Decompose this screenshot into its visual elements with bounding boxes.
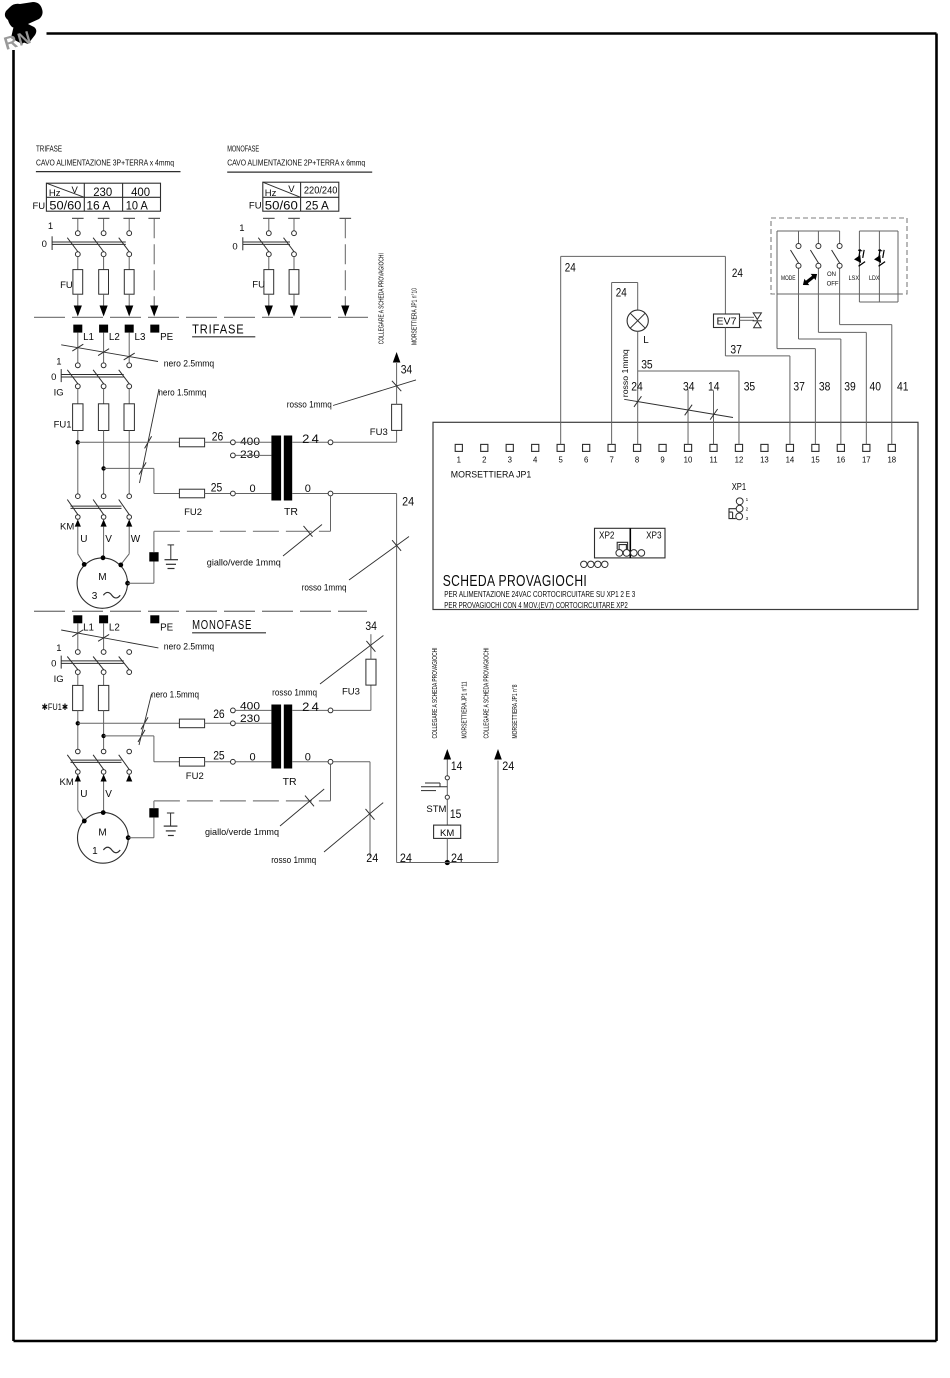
terminal JP1 pin 14 (786, 444, 793, 451)
fuses FU supply trifase (73, 270, 83, 295)
underline TRIFASE heading (192, 336, 255, 338)
wire 0 secondary trifase (292, 493, 328, 495)
fuses FU1 trifase (73, 404, 83, 431)
wire motor to PE trifase (128, 582, 154, 584)
svg-text:1: 1 (746, 497, 749, 502)
svg-text:L1: L1 (83, 332, 94, 343)
svg-text:M: M (98, 827, 106, 838)
wire PE square up monofase (153, 801, 155, 808)
svg-text:STM: STM (426, 804, 446, 815)
callout nero 1.5mmq monofase (139, 694, 152, 745)
terminal circle 400 monofase (231, 708, 236, 713)
wire lamp branch from pin7 (611, 283, 613, 445)
arrows KM poles trifase (75, 519, 81, 526)
svg-text:✱FU1✱: ✱FU1✱ (42, 702, 69, 712)
XP3 pin circles (631, 550, 638, 557)
wire 26 monofase (78, 722, 180, 724)
svg-text:14: 14 (786, 456, 795, 465)
svg-text:FU: FU (252, 280, 265, 291)
callout nero 1.5mmq trifase (140, 389, 160, 483)
transformer TR trifase secondary bar (284, 436, 292, 501)
svg-text:MODE: MODE (781, 275, 796, 282)
svg-text:M: M (98, 572, 106, 583)
thermal switch STM symbol (446, 780, 448, 795)
svg-text:16 A: 16 A (86, 200, 110, 212)
wires L1 L2 to IG monofase (77, 623, 79, 649)
wire 35 horizontal to pin12 (638, 370, 739, 372)
LED box LSX LDX (859, 230, 898, 232)
svg-text:nero 1.5mmq: nero 1.5mmq (158, 388, 206, 398)
wire 0 secondary to right trifase (333, 493, 397, 495)
wire box-left to pin15 (776, 294, 778, 349)
wire giallo/verde dashed monofase (154, 800, 331, 802)
transformer TR trifase primary bar (271, 436, 281, 501)
callout rosso 1mmq trifase lower (349, 537, 409, 581)
terminal JP1 pin 4 (532, 444, 539, 451)
node PE trifase square (150, 325, 159, 333)
wire 0 circle down to PE dashed trifase (330, 496, 332, 531)
svg-text:0: 0 (305, 483, 311, 495)
wire 24 to FU3 monofase (333, 709, 371, 711)
node L2 trifase square (99, 325, 108, 333)
coil KM box (434, 825, 461, 838)
arrow 24 to scheda (494, 749, 502, 760)
terminal JP1 pin 3 (506, 444, 513, 451)
wire V to motor trifase (103, 527, 105, 558)
underline MONOFASE heading (192, 632, 266, 634)
svg-text:L2: L2 (109, 332, 120, 343)
circle 24 secondary monofase (328, 708, 333, 713)
wire U to motor monofase (77, 782, 79, 811)
fuse FU2 trifase (179, 489, 204, 498)
terminal circle 0 primary monofase (231, 759, 236, 764)
svg-text:0: 0 (232, 242, 237, 253)
wire KM coil to 24 node (446, 838, 448, 862)
lamp L (627, 310, 648, 331)
circle 0 secondary monofase (328, 759, 333, 764)
svg-text:13: 13 (760, 456, 769, 465)
ground symbol trifase (168, 544, 175, 546)
wire 24 right vertical to arrow (497, 761, 499, 863)
wire 26 fuse to circle monofase (205, 722, 231, 724)
wire L1 below FU1 monofase (77, 711, 79, 750)
svg-text:V: V (105, 534, 112, 545)
svg-text:nero 1.5mmq: nero 1.5mmq (151, 690, 199, 700)
connector XP1 pin1 (736, 498, 743, 505)
wire 230 to TR trifase (235, 454, 271, 456)
svg-text:1: 1 (92, 846, 98, 857)
svg-text:COLLEGARE A SCHEDA PROVAGIOCHI: COLLEGARE A SCHEDA PROVAGIOCHI (482, 647, 491, 738)
callout rosso 1mmq monofase lower (324, 803, 383, 852)
svg-text:FU2: FU2 (186, 771, 204, 782)
wire 26 trifase (78, 441, 180, 443)
node PE square monofase motor (149, 808, 158, 817)
wire 25 fuse to circle trifase (205, 493, 231, 495)
svg-text:11: 11 (709, 456, 717, 465)
contactor KM monofase (76, 749, 81, 754)
svg-text:Hz: Hz (265, 188, 277, 199)
svg-text:FU1: FU1 (54, 420, 72, 431)
jumper XP2 symbol (617, 542, 627, 549)
svg-text:220/240: 220/240 (304, 186, 338, 197)
pendant inner top bus (777, 230, 840, 232)
terminal JP1 pin 16 (837, 444, 844, 451)
wires switch to fuses trifase supply (77, 257, 79, 270)
svg-text:0: 0 (51, 659, 56, 670)
svg-text:35: 35 (744, 382, 756, 394)
svg-text:3: 3 (508, 456, 512, 465)
svg-text:FU: FU (33, 201, 46, 212)
spare jumper circles row (581, 561, 587, 567)
terminal circle 400 trifase (231, 440, 236, 445)
svg-text:V: V (72, 185, 79, 196)
terminal stub PE supply monofase (340, 217, 352, 219)
wire PE dashed supply monofase (344, 218, 346, 306)
svg-text:2: 2 (482, 456, 486, 465)
terminal JP1 pin 13 (761, 444, 768, 451)
wire 24 to FU3 trifase (333, 441, 397, 443)
svg-text:34: 34 (401, 365, 413, 377)
divider XP2 XP3 (629, 528, 631, 558)
svg-text:2: 2 (746, 507, 749, 512)
wire V to motor monofase (103, 782, 105, 813)
svg-text:giallo/verde 1mmq: giallo/verde 1mmq (205, 827, 279, 837)
svg-text:Hz: Hz (49, 188, 61, 199)
svg-text:15: 15 (811, 456, 820, 465)
LED LDX symbol (871, 247, 890, 266)
svg-text:16: 16 (837, 456, 846, 465)
svg-text:24: 24 (302, 702, 321, 714)
svg-text:3: 3 (746, 516, 749, 521)
terminal JP1 pin 11 (710, 444, 717, 451)
wire L2 below FU1 trifase (103, 431, 105, 495)
svg-text:4: 4 (533, 456, 538, 465)
svg-text:5: 5 (559, 456, 564, 465)
wire stub pin11 (713, 391, 715, 445)
transformer TR monofase primary bar (271, 705, 281, 769)
svg-text:ON: ON (827, 271, 836, 278)
wires fuses to bus arrows trifase (77, 294, 79, 306)
wires fuses to bus arrows monofase (268, 294, 270, 306)
border frame (47, 32, 937, 35)
svg-text:rosso 1mmq: rosso 1mmq (272, 687, 317, 697)
contact circle STM upper (445, 776, 449, 780)
svg-text:24: 24 (400, 853, 413, 865)
terminal JP1 pin 18 (888, 444, 895, 451)
svg-text:0: 0 (305, 751, 311, 763)
svg-text:24: 24 (732, 268, 744, 280)
wire FU3 up trifase (396, 363, 398, 404)
svg-text:rosso 1mmq: rosso 1mmq (302, 583, 347, 593)
junction dot L1 26-wire (76, 440, 80, 444)
wire motor to PE monofase (128, 837, 154, 839)
junction dot L2 25-wire (101, 466, 105, 470)
fuses FU supply monofase (264, 270, 274, 295)
svg-text:L3: L3 (135, 332, 146, 343)
wire 400 to TR trifase (235, 441, 271, 443)
svg-text:V: V (288, 184, 295, 195)
svg-text:FU3: FU3 (342, 687, 360, 698)
terminal stub L2 supply trifase (98, 217, 110, 219)
fuse FU3 monofase (366, 659, 376, 685)
wire ON/OFF to pin18 (839, 268, 841, 324)
motor M1 monofase (78, 812, 129, 863)
fuse on wire 26 trifase (179, 438, 204, 447)
wire giallo/verde dashed trifase (154, 530, 331, 532)
svg-text:24: 24 (402, 497, 415, 509)
wire 0 to TR monofase (235, 761, 271, 763)
svg-text:1: 1 (56, 356, 61, 367)
logo (2, 2, 43, 54)
terminal JP1 pin 8 (633, 444, 640, 451)
svg-text:10: 10 (684, 456, 693, 465)
wire 24 long vertical down (396, 494, 398, 863)
svg-text:10 A: 10 A (126, 200, 148, 212)
wire 26 fuse to circle (205, 441, 231, 443)
fuse FU3 trifase (392, 404, 402, 430)
svg-text:XP1: XP1 (732, 482, 747, 493)
node L1 monofase square (73, 615, 82, 623)
junction dot 24 node (445, 860, 450, 865)
svg-text:MONOFASE: MONOFASE (227, 145, 259, 154)
svg-text:KM: KM (440, 828, 454, 839)
tilde motor trifase (103, 592, 120, 598)
svg-text:TR: TR (283, 776, 297, 788)
table trifase ratings box (46, 183, 160, 211)
wire 24 secondary monofase (292, 709, 328, 711)
transformer TR monofase secondary bar (284, 705, 292, 769)
svg-text:3: 3 (92, 591, 98, 602)
callout rosso 1mmq monofase upper (320, 636, 383, 685)
svg-text:PER ALIMENTAZIONE 24VAC CORTOC: PER ALIMENTAZIONE 24VAC CORTOCIRCUITARE … (444, 590, 635, 599)
svg-text:XP2: XP2 (599, 531, 615, 542)
wire 400 stub to TR monofase (235, 709, 271, 711)
terminal stub L2 supply monofase (288, 217, 300, 219)
switch MODE (798, 231, 800, 244)
svg-text:giallo/verde 1mmq: giallo/verde 1mmq (207, 557, 281, 567)
pendant inner bottom bus (777, 293, 902, 295)
arrow 34 to scheda trifase (393, 352, 401, 363)
node PE monofase square (150, 615, 159, 623)
svg-text:FU3: FU3 (370, 427, 388, 438)
terminal JP1 pin 12 (735, 444, 742, 451)
svg-text:15: 15 (450, 809, 462, 821)
svg-text:W: W (131, 534, 141, 545)
svg-text:38: 38 (819, 382, 831, 394)
table monofase ratings box (263, 182, 339, 211)
wire PE dashed supply trifase (153, 218, 155, 306)
terminal stub L1 supply monofase (263, 217, 275, 219)
wire 25 monofase (104, 735, 154, 737)
svg-text:8: 8 (635, 456, 639, 465)
connector XP1 jumper bracket (729, 509, 736, 519)
wire 24 bottom horizontal (397, 862, 498, 864)
svg-text:37: 37 (793, 382, 805, 394)
box scheda provagiochi (433, 422, 918, 609)
solenoid valve EV7 box (714, 314, 740, 328)
connector XP2 XP3 box (595, 528, 666, 558)
LED LSX symbol (851, 247, 870, 266)
svg-text:12: 12 (735, 456, 744, 465)
terminal JP1 pin 2 (481, 444, 488, 451)
svg-text:37: 37 (730, 344, 742, 356)
fuse on wire 26 monofase (179, 719, 204, 728)
svg-text:FU2: FU2 (184, 507, 202, 518)
svg-text:25: 25 (211, 483, 223, 495)
circle 24 secondary trifase (328, 440, 333, 445)
node PE square trifase motor (149, 552, 158, 561)
wire 0 to TR trifase (235, 493, 271, 495)
wire L1 below FU1 trifase (77, 431, 79, 495)
svg-text:18: 18 (887, 456, 896, 465)
svg-text:9: 9 (660, 456, 664, 465)
arrows KM poles monofase (75, 774, 81, 781)
main switch supply trifase (75, 231, 80, 236)
wires L1 L2 L3 to IG trifase (77, 333, 79, 363)
fuse FU2 monofase (179, 758, 204, 767)
svg-text:24: 24 (616, 288, 628, 300)
ground symbol monofase (167, 812, 174, 814)
wire 230 to TR monofase (235, 722, 271, 724)
svg-text:39: 39 (844, 382, 856, 394)
svg-text:25 A: 25 A (305, 200, 329, 212)
svg-text:IG: IG (54, 674, 64, 685)
terminal JP1 pin 1 (455, 444, 462, 451)
terminal JP1 pin 10 (684, 444, 691, 451)
svg-text:KM: KM (60, 777, 74, 788)
svg-text:PER PROVAGIOCHI CON 4 MOV.(EV7: PER PROVAGIOCHI CON 4 MOV.(EV7) CORTOCIR… (444, 601, 628, 610)
svg-text:1: 1 (457, 456, 461, 465)
terminal JP1 pin 17 (863, 444, 870, 451)
svg-text:1: 1 (239, 223, 244, 234)
svg-text:MORSETTIERA JP1 n°10: MORSETTIERA JP1 n°10 (410, 288, 419, 345)
wire 25 fuse to circle monofase (205, 761, 231, 763)
svg-text:34: 34 (365, 621, 377, 633)
svg-text:24: 24 (565, 263, 577, 275)
XP2 pin circles (616, 550, 623, 557)
svg-text:FU: FU (60, 280, 73, 291)
svg-text:MORSETTIERA JP1: MORSETTIERA JP1 (451, 470, 532, 481)
pendant inner left edge (776, 231, 778, 294)
junction dot L1 26-wire monofase (76, 721, 80, 725)
terminal JP1 pin 7 (608, 444, 615, 451)
svg-text:OFF: OFF (827, 281, 839, 288)
terminal circle 0 primary trifase (231, 491, 236, 496)
wire STM to KM coil (446, 799, 448, 825)
svg-text:24: 24 (631, 382, 643, 394)
switch ON OFF (839, 231, 841, 244)
pendant dashed box (771, 218, 907, 294)
contactor KM trifase (76, 494, 81, 499)
wires switch to fuses monofase supply (268, 257, 270, 270)
svg-text:TRIFASE: TRIFASE (36, 145, 62, 154)
svg-text:24: 24 (451, 853, 464, 865)
svg-text:rosso 1mmq: rosso 1mmq (271, 855, 316, 865)
svg-text:40: 40 (870, 382, 882, 394)
svg-text:L1: L1 (83, 623, 94, 634)
svg-text:400: 400 (131, 187, 150, 199)
svg-text:XP3: XP3 (646, 531, 662, 542)
svg-text:U: U (80, 789, 87, 800)
svg-text:IG: IG (54, 387, 64, 398)
terminal stub PE supply trifase (148, 217, 160, 219)
svg-text:7: 7 (609, 456, 613, 465)
svg-text:U: U (80, 534, 87, 545)
connector XP1 pin2 (736, 505, 743, 512)
svg-text:LSX: LSX (849, 275, 860, 282)
svg-text:24: 24 (302, 434, 321, 446)
svg-text:TR: TR (284, 506, 298, 518)
motor M3 trifase (77, 558, 127, 608)
terminal JP1 pin 6 (583, 444, 590, 451)
svg-text:35: 35 (641, 360, 653, 372)
node L3 trifase square (125, 325, 134, 333)
callout diagonal pins 8-10-11 (624, 399, 733, 417)
svg-text:CAVO ALIMENTAZIONE 3P+TERRA x: CAVO ALIMENTAZIONE 3P+TERRA x 4mmq (36, 158, 174, 168)
svg-text:50/60: 50/60 (49, 200, 81, 212)
contact circle STM lower (445, 795, 449, 799)
svg-text:34: 34 (683, 382, 695, 394)
wire FU3 up monofase (370, 634, 372, 659)
svg-text:nero 2.5mmq: nero 2.5mmq (164, 642, 215, 652)
svg-text:LDX: LDX (869, 275, 880, 282)
callout nero 2.5mmq trifase (61, 345, 158, 362)
wires IG to FU1 monofase (77, 675, 79, 686)
svg-text:230: 230 (93, 187, 112, 199)
wire 0 circle down monofase (330, 764, 332, 801)
svg-text:SCHEDA PROVAGIOCHI: SCHEDA PROVAGIOCHI (443, 573, 588, 590)
svg-text:rosso 1mmq: rosso 1mmq (287, 400, 332, 410)
svg-text:COLLEGARE A SCHEDA PROVAGIOCHI: COLLEGARE A SCHEDA PROVAGIOCHI (377, 253, 386, 344)
switch MOV center (817, 231, 819, 244)
wire stub pin10 (687, 390, 689, 445)
valve symbol triangles (753, 313, 761, 320)
svg-text:26: 26 (213, 709, 225, 721)
svg-text:25: 25 (213, 751, 225, 763)
main switch supply monofase (266, 231, 271, 236)
svg-text:14: 14 (451, 761, 463, 773)
svg-text:26: 26 (212, 432, 224, 444)
wire L3 below FU1 trifase (128, 431, 130, 495)
wires IG to FU1 trifase (77, 389, 79, 404)
switch IG monofase (75, 650, 80, 655)
joystick arrows symbol (800, 271, 819, 288)
callout nero 2.5mmq monofase (61, 630, 158, 648)
wire arrow14 to STM (446, 760, 448, 776)
svg-text:24: 24 (502, 761, 515, 773)
svg-text:EV7: EV7 (717, 317, 737, 328)
terminal stub L3 supply trifase (123, 217, 135, 219)
svg-text:L2: L2 (109, 623, 120, 634)
terminal circle 230 trifase (231, 453, 236, 458)
svg-text:nero 2.5mmq: nero 2.5mmq (164, 358, 215, 368)
wire lamp to pin8 and 35 corner (637, 331, 639, 444)
wire 0 secondary right stub monofase (333, 761, 370, 763)
wire 24 secondary trifase (292, 441, 328, 443)
wire 0 secondary monofase (292, 761, 328, 763)
node L2 monofase square (99, 615, 108, 623)
svg-text:MORSETTIERA JP1 n°8: MORSETTIERA JP1 n°8 (510, 684, 519, 738)
svg-text:14: 14 (708, 382, 720, 394)
wire 24 net from pin5 (560, 256, 562, 444)
tilde motor monofase (103, 847, 120, 853)
terminal circle 230 monofase (231, 721, 236, 726)
underline monofase cable note (227, 171, 372, 173)
svg-text:0: 0 (51, 372, 56, 383)
connector XP1 pin3 (736, 513, 743, 520)
wire 25 trifase (104, 467, 154, 469)
valve stem double line (740, 316, 755, 318)
